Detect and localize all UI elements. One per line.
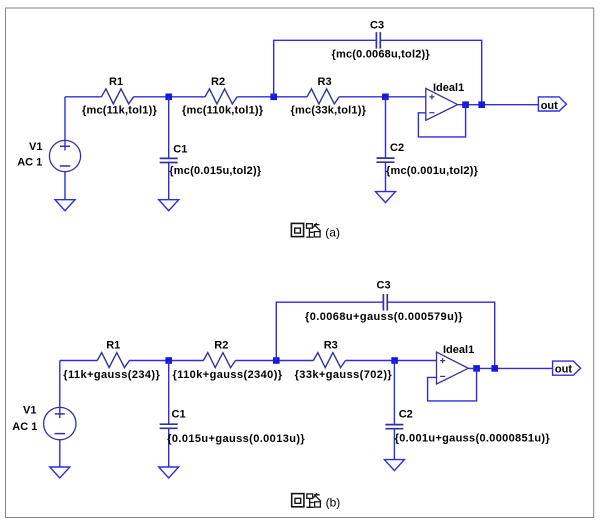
caption circuit (a) <box>291 223 320 237</box>
wire op-amp feedback loop (b) <box>428 368 477 401</box>
capacitor C2 (a) <box>377 158 395 162</box>
svg-text:AC 1: AC 1 <box>12 421 37 433</box>
ground below C2 (a) <box>376 192 396 203</box>
ground below C2 (b) <box>384 460 404 471</box>
node junction R1-R2-C1 (b) <box>165 357 172 364</box>
svg-text:AC 1: AC 1 <box>17 157 42 169</box>
wire main: R1 to R2 (b) <box>129 360 203 362</box>
svg-text:out: out <box>555 364 572 376</box>
caption circuit (b) <box>292 493 321 507</box>
svg-text:{0.001u+gauss(0.0000851u)}: {0.001u+gauss(0.0000851u)} <box>395 433 551 445</box>
svg-text:R2: R2 <box>211 76 225 88</box>
wire op-amp feedback loop (a) <box>418 105 465 137</box>
wire C1 branch (b) <box>168 361 170 468</box>
wire main: R3 to op-amp (b) <box>346 360 437 362</box>
capacitor C1 (a) <box>160 158 178 162</box>
svg-text:C3: C3 <box>370 19 384 31</box>
capacitor C3 (a) <box>376 32 380 49</box>
wire main: R1 to R2 (a) <box>133 96 205 98</box>
ground below V1 (b) <box>50 467 70 478</box>
svg-text:{0.0068u+gauss(0.000579u)}: {0.0068u+gauss(0.000579u)} <box>305 311 463 323</box>
wire V1 top to main wire (b) <box>59 361 61 408</box>
wire main: R2 to R3 (b) <box>236 360 314 362</box>
wire C1 branch (a) <box>168 97 170 200</box>
node C3 to output (b) <box>491 365 498 372</box>
wire V1 top to main wire (a) <box>64 97 66 141</box>
capacitor C1 (b) <box>160 424 178 428</box>
node junction R2-R3-C3 (b) <box>273 357 280 364</box>
out port (b) <box>553 361 581 375</box>
op-amp U1 Ideal1 (a) <box>426 88 458 120</box>
node junction R1-R2-C1 (a) <box>165 94 172 101</box>
svg-text:R1: R1 <box>106 339 120 351</box>
node C3 to output (a) <box>478 101 485 108</box>
wire C3 branch right (a) <box>380 40 481 104</box>
wire main: R3 to op-amp (a) <box>339 96 426 98</box>
voltage source V1 (circuit b) <box>44 407 76 439</box>
svg-text:C2: C2 <box>390 142 404 154</box>
resistor R2 (b) <box>203 353 235 368</box>
svg-text:R1: R1 <box>109 76 123 88</box>
svg-text:C3: C3 <box>377 280 391 292</box>
svg-text:V1: V1 <box>23 405 36 417</box>
wire main: R2 to R3 (a) <box>237 96 307 98</box>
svg-text:C2: C2 <box>399 408 413 420</box>
svg-text:{11k+gauss(234)}: {11k+gauss(234)} <box>63 369 160 381</box>
wire main: V1 to R1 (a) <box>65 96 102 98</box>
capacitor C2 (b) <box>385 425 403 429</box>
node op-amp output (b) <box>473 365 480 372</box>
svg-text:{0.015u+gauss(0.0013u)}: {0.015u+gauss(0.0013u)} <box>167 433 305 445</box>
svg-text:(a): (a) <box>325 225 340 239</box>
resistor R3 (a) <box>307 89 339 104</box>
wire C3 branch left (a) <box>274 40 377 97</box>
svg-text:R3: R3 <box>318 76 332 88</box>
svg-text:{33k+gauss(702)}: {33k+gauss(702)} <box>295 369 393 381</box>
node op-amp output (a) <box>462 101 469 108</box>
wire V1 bottom to ground (a) <box>64 172 66 200</box>
op-amp U1 Ideal1 (b) <box>437 352 469 384</box>
svg-text:C1: C1 <box>173 143 187 155</box>
node junction R3-C2-opamp (b) <box>391 357 398 364</box>
wire op-amp output (a) <box>458 104 539 106</box>
wire C3 branch right (b) <box>387 302 494 368</box>
svg-text:Ideal1: Ideal1 <box>443 344 474 356</box>
resistor R2 (a) <box>205 89 237 104</box>
svg-text:Ideal1: Ideal1 <box>433 82 464 94</box>
wire V1 bottom to ground (b) <box>59 440 61 468</box>
svg-text:(b): (b) <box>326 496 341 510</box>
svg-text:R3: R3 <box>324 339 338 351</box>
node junction R2-R3-C3 (a) <box>270 94 277 101</box>
ground below V1 (a) <box>55 200 75 211</box>
svg-text:{mc(0.001u,tol2)}: {mc(0.001u,tol2)} <box>386 165 479 177</box>
node junction R3-C2-opamp (a) <box>382 94 389 101</box>
svg-text:out: out <box>541 100 558 112</box>
wire op-amp output (b) <box>468 367 552 369</box>
ground below C1 (a) <box>159 200 179 211</box>
capacitor C3 (b) <box>383 294 387 311</box>
wire C2 branch (b) <box>393 361 395 460</box>
ground below C1 (b) <box>159 467 179 478</box>
svg-text:R2: R2 <box>214 339 228 351</box>
svg-text:{mc(33k,tol1)}: {mc(33k,tol1)} <box>291 104 367 116</box>
svg-text:V1: V1 <box>29 141 42 153</box>
svg-text:C1: C1 <box>172 409 186 421</box>
resistor R1 (a) <box>101 89 133 104</box>
svg-text:{mc(11k,tol1)}: {mc(11k,tol1)} <box>82 104 157 116</box>
wire C3 branch left (b) <box>276 302 383 360</box>
svg-text:{mc(0.0068u,tol2)}: {mc(0.0068u,tol2)} <box>332 49 431 61</box>
wire main: V1 to R1 (b) <box>60 360 98 362</box>
resistor R3 (b) <box>313 353 345 368</box>
svg-text:{110k+gauss(2340)}: {110k+gauss(2340)} <box>173 369 283 381</box>
svg-text:{mc(0.015u,tol2)}: {mc(0.015u,tol2)} <box>169 165 262 177</box>
voltage source V1 (circuit a) <box>49 140 80 171</box>
out port (a) <box>538 97 566 111</box>
svg-text:{mc(110k,tol1)}: {mc(110k,tol1)} <box>182 104 264 116</box>
resistor R1 (b) <box>97 353 129 368</box>
wire C2 branch (a) <box>385 97 387 192</box>
